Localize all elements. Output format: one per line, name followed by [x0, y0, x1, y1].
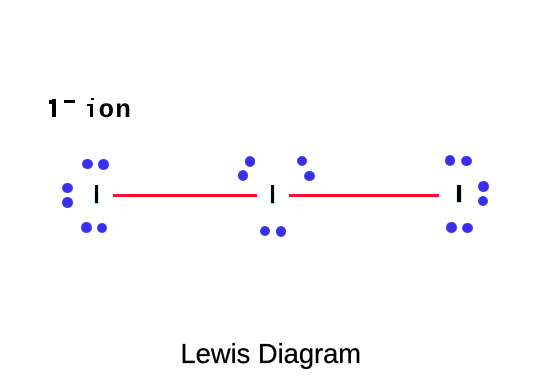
lone pair dot I1 bottom-left	[81, 222, 92, 233]
lone pair dot I3 top-left	[445, 155, 456, 166]
lone pair dot I3 top-right	[461, 156, 472, 167]
caption "Lewis Diagram"	[181, 340, 362, 367]
lone pair dot I3 bottom-right	[462, 223, 473, 234]
iodine atom I1	[95, 185, 99, 203]
lone pair dot I1 left-upper	[62, 183, 73, 194]
glyph "i" dot of word ion	[91, 98, 94, 100]
bond I1-I2	[113, 194, 258, 197]
superscript minus of charge label	[64, 100, 75, 103]
lone pair dot I1 top-left	[82, 159, 93, 170]
lone pair dot I2 upper-left-b	[238, 170, 249, 181]
lone pair dot I2 upper-right-a	[297, 156, 308, 167]
lone pair dot I2 upper-right-b	[304, 171, 315, 182]
text "on" of word ion	[99, 97, 133, 123]
bond I2-I3	[289, 194, 440, 197]
glyph "i" flag of word ion	[87, 104, 89, 107]
lone pair dot I3 right-lower	[478, 196, 489, 207]
glyph "1" stem of charge label	[52, 99, 56, 118]
glyph "i" stem of word ion	[90, 104, 94, 117]
iodine atom I3	[457, 185, 461, 203]
lone pair dot I2 bottom-right	[276, 226, 287, 237]
lone pair dot I1 bottom-right	[97, 223, 108, 234]
lone pair dot I3 bottom-left	[446, 222, 457, 233]
glyph "1" flag of charge label	[49, 100, 52, 104]
lone pair dot I2 upper-left-a	[245, 156, 256, 167]
lone pair dot I1 top-right	[98, 159, 109, 170]
lone pair dot I1 left-lower	[62, 197, 73, 208]
lone pair dot I2 bottom-left	[260, 226, 271, 237]
iodine atom I2	[271, 185, 275, 203]
lone pair dot I3 right-upper	[478, 181, 489, 192]
